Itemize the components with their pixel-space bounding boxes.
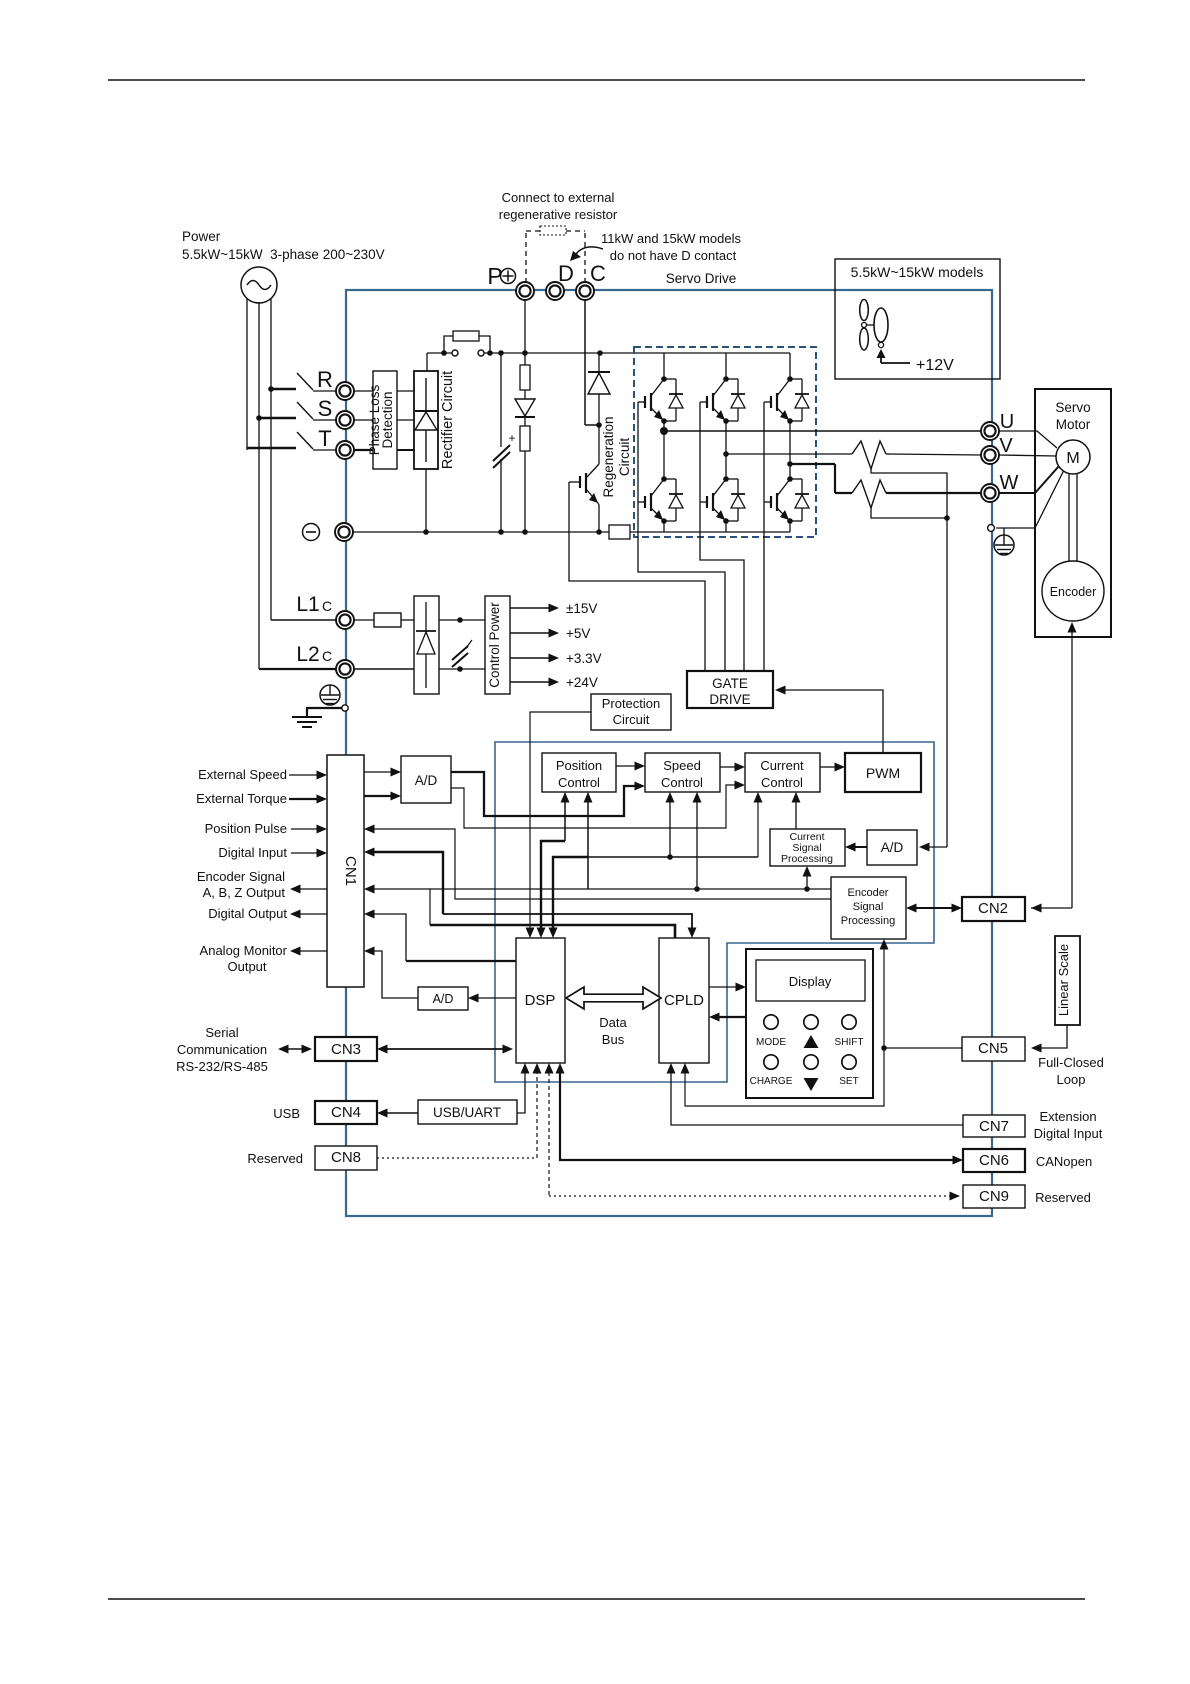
5.5kW~15kW models box bbox=[835, 259, 1000, 379]
switch S bbox=[297, 402, 336, 420]
arrow A/D2 to current signal processing bbox=[845, 843, 867, 852]
resistor R3 (regen) bbox=[609, 525, 630, 539]
arrow display to CPLD bbox=[709, 1013, 746, 1022]
arrow Digital Input into CN1 bbox=[291, 849, 327, 858]
gate drive block bbox=[687, 671, 773, 708]
svg-text:11kW and 15kW models: 11kW and 15kW models bbox=[601, 231, 741, 246]
protection circuit block bbox=[591, 694, 671, 730]
node minus rail junctions bbox=[423, 529, 602, 535]
dashed IGBT bridge box bbox=[634, 347, 816, 537]
svg-text:C: C bbox=[590, 261, 606, 286]
CN9 connector bbox=[963, 1185, 1025, 1208]
svg-text:5.5kW~15kW models: 5.5kW~15kW models bbox=[851, 264, 984, 280]
svg-text:CN4: CN4 bbox=[331, 1104, 361, 1121]
diode inside rectifier bbox=[415, 378, 437, 462]
CPLD block bbox=[659, 938, 709, 1063]
wire regen gate to gate drive bbox=[569, 482, 705, 671]
svg-text:M: M bbox=[1066, 450, 1079, 467]
wire CN1 digital input to CPLD bbox=[364, 848, 697, 939]
svg-text:USB: USB bbox=[273, 1106, 300, 1121]
resistor R1 (soft charge) bbox=[520, 353, 530, 390]
node R feed junction bbox=[268, 386, 296, 392]
wire W to motor bbox=[999, 466, 1059, 493]
svg-text:CN1: CN1 bbox=[342, 856, 359, 886]
breaker contacts bbox=[452, 350, 484, 356]
svg-text:Display: Display bbox=[789, 974, 832, 989]
A/D converter block 2 bbox=[867, 830, 917, 865]
svg-text:CANopen: CANopen bbox=[1036, 1154, 1092, 1169]
arrow DSP to A/D3 bbox=[468, 994, 516, 1003]
wire V to motor bbox=[999, 455, 1056, 456]
svg-text:Connect to external: Connect to external bbox=[502, 190, 615, 205]
label Serial Communication RS-232/RS-485 bbox=[176, 1025, 268, 1074]
wire rectifier output up to DC bus bbox=[426, 353, 428, 371]
wire V current sense bbox=[871, 469, 947, 518]
curved arrow to D contact bbox=[570, 247, 603, 261]
svg-text:MODE: MODE bbox=[756, 1037, 786, 1048]
svg-text:Regeneration: Regeneration bbox=[601, 416, 616, 497]
A/D converter block 3 bbox=[418, 987, 468, 1010]
svg-text:Protection: Protection bbox=[602, 696, 661, 711]
arrow ESP to CN2 double bbox=[906, 904, 962, 913]
wire phase feed right (to R and L1C) bbox=[270, 299, 272, 620]
label Data Bus bbox=[599, 1015, 627, 1047]
wire CN1 position pulse bbox=[364, 825, 831, 900]
wire P terminal to bus bbox=[524, 300, 526, 353]
fan icon bbox=[860, 300, 888, 351]
svg-text:regenerative resistor: regenerative resistor bbox=[499, 207, 618, 222]
label L2C bbox=[296, 643, 332, 666]
svg-text:+3.3V: +3.3V bbox=[566, 651, 602, 666]
svg-text:CN2: CN2 bbox=[978, 900, 1008, 917]
svg-text:+: + bbox=[508, 431, 515, 445]
wire phase feed middle (to S and L2C) bbox=[258, 302, 260, 669]
keypad panel box bbox=[746, 949, 873, 1098]
protective earth symbol bbox=[320, 685, 340, 705]
label Regeneration Circuit bbox=[601, 416, 632, 497]
svg-text:C: C bbox=[322, 648, 332, 664]
ground under L2C bbox=[292, 705, 348, 727]
terminal V bbox=[981, 435, 1013, 464]
svg-text:Speed: Speed bbox=[663, 758, 701, 773]
svg-text:Control: Control bbox=[558, 775, 600, 790]
svg-text:CN7: CN7 bbox=[979, 1118, 1009, 1135]
svg-text:Motor: Motor bbox=[1056, 417, 1091, 432]
terminal U bbox=[981, 411, 1014, 440]
rectifier circuit block bbox=[414, 371, 438, 469]
wire L1C feed bbox=[271, 619, 336, 621]
wire encoder bus branch to CSP bbox=[803, 866, 812, 889]
node DC bus junctions bbox=[441, 350, 603, 356]
label L1C bbox=[296, 593, 332, 616]
current signal processing block bbox=[770, 829, 845, 866]
svg-text:External Speed: External Speed bbox=[198, 767, 287, 782]
linear scale block bbox=[1055, 936, 1080, 1025]
CN8 connector bbox=[315, 1146, 377, 1170]
wire +12V to fan bbox=[877, 349, 955, 374]
wire CN1 to A/D external torque bbox=[364, 792, 401, 801]
transistor Q3U upper IGBT leg 2 bbox=[700, 353, 745, 424]
arrow speed to current control bbox=[720, 763, 745, 772]
svg-text:External Torque: External Torque bbox=[196, 791, 287, 806]
label 11kW and 15kW models do not have D contact bbox=[601, 231, 741, 263]
wire USB/UART to DSP bbox=[517, 1063, 530, 1113]
svg-text:R: R bbox=[317, 367, 333, 392]
CN7 connector bbox=[963, 1115, 1025, 1137]
wire PLD to rectifier R bbox=[397, 390, 414, 392]
wire DSP to CN9 dashed bbox=[545, 1063, 961, 1201]
svg-text:Processing: Processing bbox=[841, 915, 895, 927]
arrow CSP to current control bbox=[792, 792, 801, 829]
CN4 connector bbox=[315, 1101, 377, 1124]
wire A/D out1 to speed control bbox=[451, 772, 645, 816]
arrow External Speed into CN1 bbox=[289, 771, 327, 780]
wire encoder bus branch to speed control bbox=[693, 792, 702, 889]
svg-text:Bus: Bus bbox=[602, 1032, 625, 1047]
wire C terminal down to regen node bbox=[585, 300, 599, 425]
label Full-Closed Loop bbox=[1038, 1055, 1104, 1087]
wire minus rail bbox=[353, 531, 790, 533]
svg-text:Encoder Signal: Encoder Signal bbox=[197, 869, 285, 884]
PWM block bbox=[845, 753, 921, 792]
wire PLD to rectifier S bbox=[397, 419, 414, 421]
wire DSP to CN6 bbox=[556, 1063, 964, 1165]
transistor Q4U upper IGBT leg 3 bbox=[764, 353, 809, 424]
svg-text:L1: L1 bbox=[296, 593, 319, 616]
phase loss detection block bbox=[367, 371, 397, 469]
terminal minus bbox=[335, 523, 353, 541]
wire DC bus (P rail) bbox=[427, 352, 790, 354]
svg-text:Serial: Serial bbox=[205, 1025, 238, 1040]
svg-text:CN9: CN9 bbox=[979, 1188, 1009, 1205]
wire CN7 to CPLD bbox=[667, 1063, 964, 1125]
svg-text:Position: Position bbox=[556, 758, 602, 773]
wire U phase bbox=[664, 430, 981, 432]
svg-text:Detection: Detection bbox=[380, 391, 395, 448]
motor M circle bbox=[1056, 440, 1090, 474]
page bottom rule bbox=[108, 1598, 1085, 1600]
svg-text:CN8: CN8 bbox=[331, 1149, 361, 1166]
wire U to motor bbox=[999, 431, 1057, 448]
wire output &#177;15V bbox=[510, 601, 597, 616]
arrow Encoder Signal out of CN1 bbox=[290, 885, 327, 894]
wire CN5 to CPLD and ESP bbox=[681, 939, 963, 1106]
label P with circled plus bbox=[487, 263, 515, 289]
svg-text:Processing: Processing bbox=[781, 853, 833, 865]
keypad labels row 1 bbox=[756, 1035, 863, 1048]
svg-text:RS-232/RS-485: RS-232/RS-485 bbox=[176, 1059, 268, 1074]
data bus double arrow bbox=[566, 987, 661, 1009]
terminal T bbox=[336, 441, 354, 459]
switch T bbox=[297, 432, 336, 450]
label Power 5.5kW~15kW 3-phase 200~230V bbox=[182, 229, 385, 262]
svg-text:GATE: GATE bbox=[712, 676, 748, 691]
svg-text:D: D bbox=[558, 261, 574, 286]
encoder circle bbox=[1042, 561, 1104, 621]
speed control block bbox=[645, 753, 720, 792]
svg-text:Data: Data bbox=[599, 1015, 627, 1030]
svg-text:CN6: CN6 bbox=[979, 1152, 1009, 1169]
svg-text:PWM: PWM bbox=[866, 765, 900, 781]
control section enclosure (blue polygon) bbox=[495, 742, 934, 1082]
arrow CN3 to DSP double bbox=[377, 1045, 513, 1054]
svg-text:DRIVE: DRIVE bbox=[709, 692, 750, 707]
control power block bbox=[485, 596, 510, 694]
svg-text:Loop: Loop bbox=[1057, 1072, 1086, 1087]
arrow Digital Output out of CN1 bbox=[290, 910, 327, 919]
wire position control input 2 from DSP bbox=[549, 792, 593, 938]
transistor Q4L lower IGBT leg 3 bbox=[764, 421, 809, 532]
svg-text:S: S bbox=[318, 396, 333, 421]
wire analog monitor output bbox=[364, 947, 418, 999]
svg-text:Control: Control bbox=[761, 775, 803, 790]
transistor Q3L lower IGBT leg 2 bbox=[700, 421, 745, 532]
node U tap bbox=[660, 427, 668, 435]
arrow External Torque into CN1 bbox=[289, 795, 327, 804]
svg-text:Output: Output bbox=[227, 959, 266, 974]
svg-text:Full-Closed: Full-Closed bbox=[1038, 1055, 1104, 1070]
arrow USB/UART to CN4 bbox=[377, 1109, 418, 1118]
wire ground to motor bbox=[996, 470, 1064, 528]
svg-text:CN3: CN3 bbox=[331, 1041, 361, 1058]
CN1 connector bbox=[327, 755, 364, 987]
keypad buttons row 2 bbox=[764, 1055, 856, 1069]
wire S to phase loss detection bbox=[354, 419, 373, 421]
node S feed junction bbox=[256, 415, 296, 421]
wire rectifier output down to minus rail bbox=[425, 469, 427, 532]
wire L2C feed bbox=[259, 668, 336, 670]
svg-text:Digital Input: Digital Input bbox=[218, 845, 287, 860]
arrow current control to PWM bbox=[820, 763, 845, 772]
node regen collector junction bbox=[596, 422, 602, 428]
svg-text:Control Power: Control Power bbox=[487, 602, 502, 688]
transistor Q2U upper IGBT leg 1 bbox=[638, 353, 683, 424]
keypad labels row 2 bbox=[750, 1076, 859, 1091]
svg-text:Encoder: Encoder bbox=[1050, 585, 1097, 599]
CN3 connector bbox=[315, 1037, 377, 1061]
wire V phase with current sensor bbox=[726, 441, 981, 469]
CN5 connector bbox=[962, 1037, 1025, 1061]
wire protection circuit to DSP bbox=[526, 712, 592, 938]
keypad buttons row 1 bbox=[764, 1015, 856, 1029]
wire CN8 to DSP dotted bbox=[377, 1063, 542, 1158]
svg-text:A/D: A/D bbox=[881, 840, 904, 855]
switch R bbox=[297, 373, 336, 391]
svg-text:Circuit: Circuit bbox=[613, 712, 650, 727]
svg-text:5.5kW~15kW 3-phase 200~230V: 5.5kW~15kW 3-phase 200~230V bbox=[182, 247, 385, 262]
transistor Q1 (regeneration IGBT) bbox=[569, 425, 599, 532]
position control block bbox=[542, 753, 616, 792]
servo motor box bbox=[1035, 389, 1111, 637]
svg-text:Control: Control bbox=[661, 775, 703, 790]
encoder signal processing block bbox=[831, 877, 906, 939]
resistor R2 bbox=[520, 417, 530, 532]
wire W current sense bbox=[871, 508, 950, 521]
CN6 connector bbox=[963, 1149, 1025, 1172]
wire gate leg3 to gate drive bbox=[763, 402, 765, 671]
svg-text:A/D: A/D bbox=[433, 992, 454, 1006]
wire PWM to gate drive bbox=[775, 686, 883, 754]
terminal L2C bbox=[336, 660, 354, 678]
fuse bypass over contact bbox=[444, 331, 490, 353]
svg-text:+12V: +12V bbox=[916, 357, 954, 374]
wire position control input 1 from DSP bbox=[537, 792, 570, 938]
diode D3 inside rectifier2 bbox=[416, 602, 436, 688]
label Connect to external regenerative resistor bbox=[499, 190, 618, 222]
svg-text:SET: SET bbox=[839, 1076, 858, 1087]
capacitor C1 (DC link) bbox=[493, 353, 516, 532]
svg-text:CPLD: CPLD bbox=[664, 992, 704, 1009]
wire linear scale to CN5 bbox=[1031, 1025, 1067, 1053]
terminal R bbox=[336, 382, 354, 400]
wire W phase with current sensor bbox=[790, 464, 981, 508]
svg-text:±15V: ±15V bbox=[566, 601, 597, 616]
USB/UART block bbox=[418, 1100, 517, 1124]
wire CN1 to A/D external speed bbox=[364, 768, 401, 777]
svg-text:DSP: DSP bbox=[525, 992, 556, 1009]
terminal D bbox=[546, 282, 564, 300]
labels CN1 left side bbox=[196, 767, 287, 974]
wire L2C to rectifier2 bbox=[354, 668, 414, 670]
wire output +5V bbox=[510, 626, 590, 641]
svg-text:W: W bbox=[1000, 472, 1019, 494]
svg-text:+5V: +5V bbox=[566, 626, 590, 641]
wire gate leg2 to gate drive bbox=[700, 402, 744, 671]
diode D1 bbox=[515, 390, 535, 417]
svg-text:Digital Input: Digital Input bbox=[1034, 1126, 1103, 1141]
terminal L1C bbox=[336, 611, 354, 629]
terminal S bbox=[336, 411, 354, 429]
arrow Analog Monitor out of CN1 bbox=[290, 947, 327, 956]
wire current sense down to A/D bbox=[919, 518, 947, 852]
wire encoder to CN2 bbox=[1031, 622, 1077, 913]
arrow serial to CN3 double bbox=[278, 1045, 312, 1054]
display box bbox=[756, 960, 865, 1001]
wire output +24V bbox=[510, 675, 598, 690]
svg-text:Servo: Servo bbox=[1055, 400, 1090, 415]
terminal W bbox=[981, 472, 1019, 502]
wire CN1 encoder signal bus bbox=[364, 885, 831, 939]
wire speed feedback to current control bbox=[588, 792, 763, 860]
svg-text:Signal: Signal bbox=[853, 901, 884, 913]
svg-text:V: V bbox=[999, 435, 1013, 457]
svg-text:Extension: Extension bbox=[1039, 1109, 1096, 1124]
svg-text:L2: L2 bbox=[296, 643, 319, 666]
svg-text:A/D: A/D bbox=[415, 773, 438, 788]
svg-text:Circuit: Circuit bbox=[617, 438, 632, 477]
svg-text:CHARGE: CHARGE bbox=[750, 1076, 793, 1087]
svg-text:Current: Current bbox=[760, 758, 804, 773]
terminal C bbox=[576, 282, 594, 300]
svg-text:+24V: +24V bbox=[566, 675, 598, 690]
label Extension Digital Input bbox=[1034, 1109, 1103, 1141]
svg-text:C: C bbox=[322, 598, 332, 614]
ground circle near W bbox=[988, 525, 995, 532]
svg-text:do not have D contact: do not have D contact bbox=[610, 248, 737, 263]
wire rectifier2 outputs bbox=[439, 617, 485, 672]
svg-text:Reserved: Reserved bbox=[1035, 1190, 1091, 1205]
svg-text:U: U bbox=[1000, 411, 1014, 433]
wire T to phase loss detection bbox=[354, 449, 373, 451]
svg-text:T: T bbox=[318, 426, 331, 451]
current control block bbox=[745, 753, 820, 792]
node V tap bbox=[723, 451, 729, 457]
DSP block bbox=[516, 938, 565, 1063]
wire PLD to rectifier T bbox=[397, 449, 414, 451]
svg-text:Reserved: Reserved bbox=[247, 1151, 303, 1166]
page top rule bbox=[108, 79, 1085, 81]
rectifier2 block bbox=[414, 596, 439, 694]
capacitor C2 bbox=[452, 640, 472, 667]
diode D2 (regen) bbox=[588, 353, 610, 425]
svg-text:CN5: CN5 bbox=[978, 1040, 1008, 1057]
node T feed junction bbox=[247, 447, 296, 449]
wire gate leg1 to gate drive bbox=[638, 402, 725, 671]
fuse F1 bbox=[354, 613, 414, 627]
wire A/D out2 to current control bbox=[451, 781, 745, 829]
svg-text:Encoder: Encoder bbox=[848, 887, 889, 899]
svg-text:USB/UART: USB/UART bbox=[433, 1105, 501, 1120]
svg-text:Digital Output: Digital Output bbox=[208, 906, 287, 921]
node W tap bbox=[787, 461, 793, 467]
svg-text:Position Pulse: Position Pulse bbox=[205, 821, 287, 836]
wire output +3.3V bbox=[510, 651, 602, 666]
wire digital output DSP to CN1 bbox=[364, 910, 516, 962]
svg-text:Communication: Communication bbox=[177, 1042, 267, 1057]
svg-text:Analog Monitor: Analog Monitor bbox=[200, 943, 288, 958]
motor shaft bbox=[1069, 474, 1077, 562]
protective earth symbol 2 bbox=[994, 528, 1014, 555]
wire phase feed left (to T) bbox=[246, 299, 248, 450]
svg-text:Servo Drive: Servo Drive bbox=[666, 271, 737, 286]
wire R to phase loss detection bbox=[354, 390, 373, 392]
transistor Q2L lower IGBT leg 1 bbox=[638, 421, 683, 532]
svg-text:A, B, Z Output: A, B, Z Output bbox=[203, 885, 286, 900]
svg-text:SHIFT: SHIFT bbox=[835, 1037, 864, 1048]
minus symbol bbox=[303, 524, 320, 541]
terminal P bbox=[516, 282, 534, 300]
CN2 connector bbox=[962, 897, 1025, 921]
servo drive enclosure (blue box) bbox=[346, 290, 992, 1216]
arrow position to speed control bbox=[616, 762, 645, 771]
arrow Position Pulse into CN1 bbox=[291, 825, 327, 834]
svg-text:Linear Scale: Linear Scale bbox=[1056, 944, 1071, 1016]
AC power source symbol bbox=[241, 267, 277, 303]
svg-text:Rectifier Circuit: Rectifier Circuit bbox=[440, 371, 456, 469]
arrow CPLD to display bbox=[709, 983, 746, 992]
dashed external regen resistor box bbox=[526, 226, 585, 283]
A/D converter block 1 bbox=[401, 756, 451, 803]
svg-text:Power: Power bbox=[182, 229, 221, 244]
